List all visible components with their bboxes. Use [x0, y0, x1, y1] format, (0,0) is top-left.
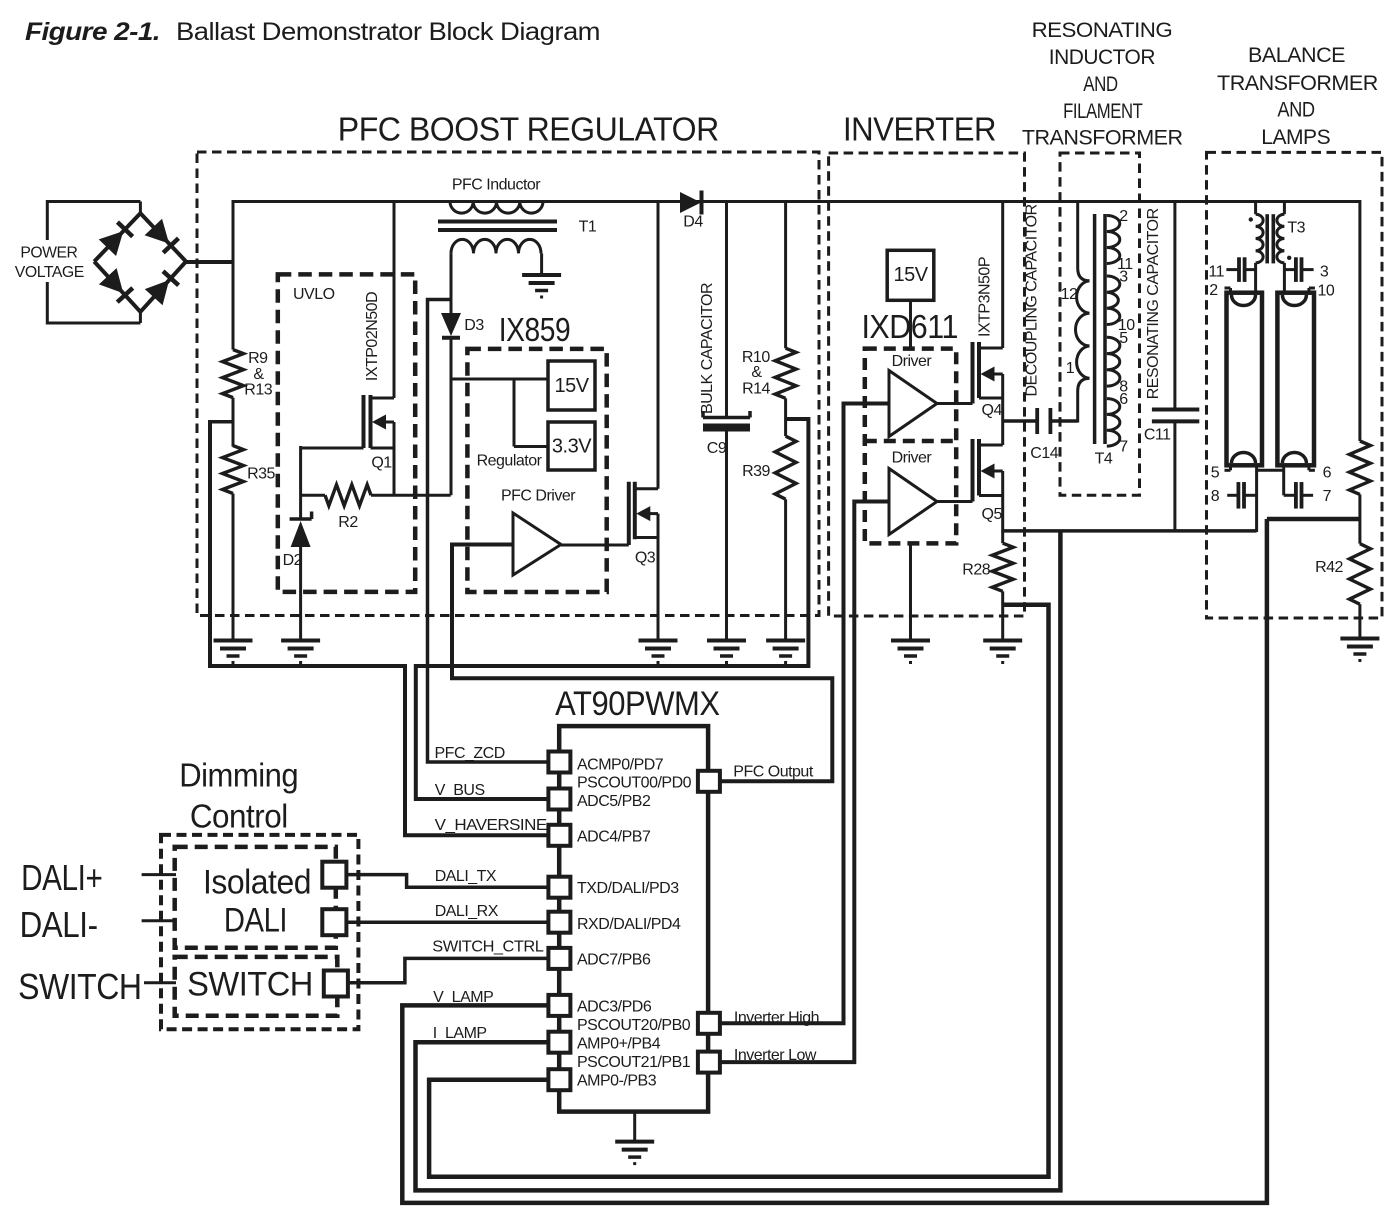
IXD611 driver dashed box: [865, 349, 956, 544]
capacitor C11: [1152, 408, 1199, 412]
T4 secondary winding 1: [1107, 216, 1120, 264]
lamp tube right: [1277, 293, 1314, 466]
wire C11 bottom: [1173, 421, 1176, 532]
wire T1 secondary left lead: [450, 253, 453, 313]
svg-text:R14: R14: [742, 381, 770, 398]
svg-text:6: 6: [1323, 464, 1332, 481]
T3 polarity dot left: [1249, 217, 1253, 221]
wire balance right drop: [1358, 200, 1361, 441]
svg-text:PFC Inductor: PFC Inductor: [452, 177, 541, 194]
svg-text:Isolated: Isolated: [203, 864, 311, 902]
inverter dashed box: [829, 153, 1025, 616]
power voltage label: [12, 240, 88, 282]
wire main top bus: [232, 200, 1360, 203]
svg-text:INVERTER: INVERTER: [843, 110, 996, 147]
svg-text:DALI-: DALI-: [20, 904, 98, 945]
svg-text:Figure 2-1.: Figure 2-1.: [25, 18, 160, 46]
driver box divider: [865, 439, 956, 444]
svg-text:VOLTAGE: VOLTAGE: [15, 264, 84, 281]
op-amp PFC driver triangle: [513, 513, 561, 575]
svg-text:FILAMENT: FILAMENT: [1063, 100, 1143, 123]
chip ground stub: [633, 1112, 636, 1141]
svg-text:Q5: Q5: [982, 506, 1003, 523]
inductor T3 right winding: [1277, 214, 1285, 263]
ground chip: [615, 1140, 654, 1144]
svg-text:2: 2: [1119, 208, 1128, 225]
AT90PWMX chip box: [559, 726, 708, 1112]
svg-text:15V: 15V: [554, 375, 589, 397]
wire R13 to junction: [232, 398, 235, 447]
ground Q3: [639, 639, 678, 643]
svg-text:IXTP3N50P: IXTP3N50P: [977, 257, 994, 337]
wire V_HAVERSINE route: [210, 420, 548, 835]
chip left pin boxes: [548, 752, 570, 773]
svg-text:R9: R9: [248, 350, 268, 367]
capacitor lamp 3: [1284, 268, 1296, 271]
capacitor C14: [1035, 408, 1039, 434]
svg-text:I_LAMP: I_LAMP: [433, 1025, 487, 1042]
wire T3 left lead bottom: [1254, 263, 1257, 293]
wire T4 primary top lead: [1078, 200, 1090, 281]
ground T1: [522, 273, 561, 277]
svg-text:12: 12: [1061, 286, 1078, 303]
wire lamp sense node: [1267, 517, 1360, 522]
svg-text:DALI+: DALI+: [21, 857, 102, 898]
svg-text:RXD/DALI/PD4: RXD/DALI/PD4: [577, 916, 681, 933]
wire R28 to ground: [1001, 591, 1004, 640]
ground driver box: [891, 639, 930, 643]
lamp right bottom filament: [1282, 453, 1306, 464]
svg-text:Dimming: Dimming: [179, 757, 298, 794]
svg-text:1: 1: [1066, 360, 1075, 377]
wire V_BUS route: [416, 419, 809, 799]
svg-text:R2: R2: [338, 514, 358, 531]
T4 secondary winding 4: [1107, 399, 1120, 447]
svg-text:TXD/DALI/PD3: TXD/DALI/PD3: [577, 880, 679, 897]
svg-text:ADC4/PB7: ADC4/PB7: [577, 829, 651, 846]
bridge diode top-right: [145, 219, 170, 244]
svg-text:C14: C14: [1030, 445, 1058, 462]
svg-text:AND: AND: [1083, 73, 1118, 96]
wire DALI_RX: [346, 920, 548, 924]
svg-text:PFC BOOST REGULATOR: PFC BOOST REGULATOR: [338, 110, 719, 147]
lamp pin 10 tick: [1309, 287, 1315, 290]
wire DALI_TX: [346, 875, 548, 888]
3.3V box: [548, 422, 595, 470]
svg-text:C9: C9: [707, 440, 727, 457]
svg-text:R28: R28: [962, 562, 990, 579]
chip right pin boxes: [698, 771, 720, 792]
svg-text:10: 10: [1318, 282, 1335, 299]
wire R10 to R39: [784, 398, 787, 436]
wire left bus: [232, 200, 235, 350]
lamp tube left: [1227, 293, 1263, 466]
wire R10 top: [784, 200, 787, 348]
svg-text:ADC5/PB2: ADC5/PB2: [577, 793, 651, 810]
diode D4: [680, 192, 701, 213]
wire I_LAMP route: [416, 531, 1061, 1191]
wire DALI- stub: [142, 919, 176, 922]
svg-text:11: 11: [1208, 263, 1224, 280]
svg-text:3.3V: 3.3V: [552, 436, 592, 458]
svg-text:Regulator: Regulator: [477, 453, 543, 470]
svg-text:R42: R42: [1315, 559, 1343, 576]
op-amp driver 2 triangle: [889, 469, 937, 535]
resistor R28: [992, 543, 1013, 591]
lamp pin 2 tick: [1225, 287, 1231, 290]
svg-text:&: &: [253, 366, 264, 383]
wire Q4 drain: [1001, 200, 1004, 348]
inductor T4 primary winding: [1076, 281, 1090, 379]
svg-text:6: 6: [1119, 391, 1128, 408]
capacitor C9: [703, 416, 750, 420]
wire R2 left lead: [301, 494, 325, 497]
svg-text:T1: T1: [579, 219, 597, 236]
wire C14 to T4 primary: [1050, 419, 1077, 423]
wire T4 primary bottom lead: [1078, 378, 1090, 422]
bridge diode top-left: [99, 231, 124, 256]
wire Q4 source to Q5 drain: [1001, 374, 1004, 445]
svg-text:BALANCE: BALANCE: [1248, 44, 1345, 67]
wire C11 top: [1173, 200, 1176, 410]
resistor R2: [325, 485, 371, 506]
ground C9: [707, 639, 746, 643]
svg-text:RESONATING: RESONATING: [1032, 19, 1173, 42]
svg-text:15V: 15V: [893, 264, 928, 286]
wire Q3 source to ground: [657, 514, 660, 641]
wire D3 cathode down: [450, 339, 453, 495]
IX859 dashed box: [467, 349, 606, 592]
transistor Q1: [362, 395, 366, 448]
svg-text:T4: T4: [1095, 450, 1113, 467]
wire C9 bottom: [725, 432, 728, 641]
svg-text:PFC_ZCD: PFC_ZCD: [435, 745, 505, 762]
svg-text:Q1: Q1: [371, 455, 392, 472]
svg-text:T3: T3: [1287, 220, 1305, 237]
wire Inverter Low route: [720, 502, 889, 1063]
svg-text:INDUCTOR: INDUCTOR: [1049, 46, 1156, 69]
svg-text:PSCOUT20/PB0: PSCOUT20/PB0: [577, 1017, 691, 1034]
wire T3 right lead bottom: [1283, 263, 1286, 293]
svg-text:ACMP0/PD7: ACMP0/PD7: [577, 757, 664, 774]
lamp pin 6 tick: [1307, 465, 1310, 470]
T1 core bars: [438, 220, 557, 224]
svg-text:PFC Output: PFC Output: [733, 764, 814, 781]
wire T1 secondary right lead: [540, 253, 543, 275]
svg-text:TRANSFORMER: TRANSFORMER: [1217, 72, 1378, 95]
T3 core bars: [1265, 214, 1269, 263]
wire DALI+ stub: [142, 873, 176, 876]
wire half-bridge low bus: [1003, 529, 1257, 533]
svg-text:R35: R35: [247, 466, 275, 483]
T3 polarity dot right: [1287, 256, 1291, 260]
T4 secondary winding 2: [1107, 276, 1120, 325]
wire PFC driver output: [561, 544, 629, 547]
wire R35 junction stub: [210, 420, 234, 424]
balance transformer dashed box: [1207, 152, 1383, 618]
resistor R9 R13: [223, 350, 244, 398]
resistor R39: [775, 436, 796, 499]
wire R42 to ground: [1358, 604, 1361, 638]
wire R35 to ground: [232, 494, 235, 641]
DALI pin box 2: [322, 909, 346, 935]
DALI pin box 1: [322, 862, 346, 888]
diode D2 zener: [290, 517, 312, 521]
15V box: [548, 361, 595, 410]
wire between resistors: [1358, 494, 1361, 543]
svg-text:AND: AND: [1277, 99, 1315, 122]
wire 15V to driver box: [909, 300, 912, 348]
inductor T1 secondary winding: [451, 239, 541, 253]
wire Q1 drain: [393, 200, 396, 398]
svg-text:Q4: Q4: [982, 402, 1003, 419]
svg-text:Driver: Driver: [892, 353, 933, 370]
capacitor lamp 8: [1227, 494, 1238, 497]
svg-text:TRANSFORMER: TRANSFORMER: [1022, 127, 1183, 150]
svg-text:PSCOUT21/PB1: PSCOUT21/PB1: [577, 1054, 691, 1071]
wire R28 top: [1001, 531, 1004, 543]
svg-text:7: 7: [1323, 488, 1332, 505]
wire bridge output: [186, 260, 234, 264]
wire T3 left lead top: [1254, 200, 1257, 214]
ground left divider: [214, 639, 253, 643]
op-amp driver 1 triangle: [889, 371, 937, 437]
wire SWITCH_CTRL: [348, 958, 549, 982]
svg-text:PFC Driver: PFC Driver: [501, 488, 576, 505]
wire D2 to ground: [299, 547, 302, 641]
wire C9 top: [725, 200, 728, 416]
svg-text:IXTP02N50D: IXTP02N50D: [364, 292, 381, 381]
wire 15V feed: [451, 378, 548, 381]
svg-text:AMP0+/PB4: AMP0+/PB4: [577, 1035, 661, 1052]
transistor Q3: [627, 482, 631, 545]
wire driver box ground stub: [909, 543, 912, 640]
wire V_LAMP route: [402, 519, 1267, 1203]
svg-text:ADC3/PD6: ADC3/PD6: [577, 998, 652, 1015]
svg-text:3: 3: [1119, 268, 1128, 285]
inductor T1 primary winding: [450, 202, 543, 214]
wire Q3 drain: [657, 200, 660, 489]
svg-text:&: &: [751, 364, 762, 381]
power voltage box: [47, 202, 140, 324]
UVLO dashed box: [278, 274, 415, 592]
svg-text:SWITCH_CTRL: SWITCH_CTRL: [432, 939, 544, 956]
wire 3.3V stub: [513, 379, 516, 447]
svg-text:C11: C11: [1144, 427, 1171, 444]
bridge diode bottom-left: [99, 268, 123, 293]
bridge diode bottom-right: [145, 280, 169, 305]
wire AMP0- route: [429, 605, 1048, 1177]
svg-text:DECOUPLING CAPACITOR: DECOUPLING CAPACITOR: [1024, 204, 1041, 396]
svg-text:IX859: IX859: [499, 311, 571, 348]
svg-text:7: 7: [1119, 439, 1128, 456]
svg-text:5: 5: [1119, 330, 1128, 347]
wire half-bridge node to C14: [1003, 419, 1037, 423]
resistor balance upper: [1349, 441, 1370, 494]
SWITCH dashed box: [175, 957, 338, 1016]
svg-text:PSCOUT00/PD0: PSCOUT00/PD0: [577, 775, 692, 792]
svg-text:3: 3: [1320, 264, 1329, 281]
ground R28: [983, 639, 1022, 643]
svg-text:D3: D3: [464, 317, 484, 334]
svg-text:AMP0-/PB3: AMP0-/PB3: [577, 1072, 657, 1089]
svg-text:SWITCH: SWITCH: [18, 966, 142, 1007]
PFC boost regulator dashed box: [197, 152, 819, 616]
wire R2 right lead: [371, 494, 451, 497]
lamp pin 5 tick: [1229, 465, 1232, 470]
svg-text:IXD611: IXD611: [861, 308, 958, 345]
svg-text:5: 5: [1211, 464, 1220, 481]
wire D2 top: [299, 446, 302, 519]
svg-text:POWER: POWER: [20, 245, 77, 262]
wire R39 to ground: [784, 499, 787, 640]
T4 core bars: [1093, 214, 1097, 444]
resistor R42: [1349, 544, 1370, 605]
svg-text:Q3: Q3: [635, 550, 656, 567]
svg-text:DALI: DALI: [224, 901, 287, 939]
svg-text:V_BUS: V_BUS: [435, 782, 485, 799]
T4 secondary winding 3: [1107, 337, 1120, 386]
svg-text:V_HAVERSINE: V_HAVERSINE: [435, 817, 547, 834]
filament transformer dashed box: [1060, 153, 1140, 495]
svg-text:LAMPS: LAMPS: [1261, 126, 1330, 149]
svg-text:DALI_TX: DALI_TX: [435, 868, 497, 885]
wire PFC_ZCD route: [428, 300, 549, 763]
wire Inverter High route: [720, 404, 889, 1024]
svg-text:D4: D4: [683, 214, 703, 231]
isolated DALI dashed box: [175, 847, 336, 948]
lamp right top filament: [1282, 295, 1306, 306]
wire lamp inner pins: [1255, 465, 1258, 532]
svg-text:RESONATING CAPACITOR: RESONATING CAPACITOR: [1145, 208, 1162, 399]
capacitor lamp 11: [1226, 268, 1239, 271]
svg-text:ADC7/PB6: ADC7/PB6: [577, 951, 651, 968]
ground D2: [281, 639, 320, 643]
svg-text:R39: R39: [742, 463, 770, 480]
svg-text:Driver: Driver: [892, 450, 933, 467]
transistor Q4: [971, 342, 975, 404]
transistor Q5: [971, 439, 975, 502]
svg-text:Control: Control: [190, 797, 288, 834]
resistor R10 R14: [775, 348, 796, 398]
diode D3: [441, 313, 461, 336]
15V box inverter: [887, 250, 934, 300]
svg-text:R13: R13: [244, 382, 272, 399]
wire T3 right lead top: [1283, 200, 1286, 214]
ground R39: [766, 639, 805, 643]
svg-text:BULK CAPACITOR: BULK CAPACITOR: [699, 283, 716, 414]
resistor R35: [223, 446, 244, 494]
inductor T3 left winding: [1256, 214, 1264, 263]
svg-text:SWITCH: SWITCH: [187, 966, 313, 1004]
bridge rectifier diamond: [94, 213, 140, 261]
dimming control dashed box: [161, 835, 358, 1029]
wire Q1 source: [393, 422, 396, 495]
SWITCH pin box: [324, 971, 348, 997]
svg-text:2: 2: [1209, 282, 1218, 299]
svg-text:AT90PWMX: AT90PWMX: [555, 685, 720, 723]
svg-text:UVLO: UVLO: [293, 286, 335, 303]
svg-text:Ballast Demonstrator Block Dia: Ballast Demonstrator Block Diagram: [176, 18, 600, 46]
capacitor lamp 7: [1284, 494, 1296, 497]
lamp left bottom filament: [1232, 453, 1256, 464]
wire Q5 source: [1001, 471, 1004, 532]
wire SWITCH stub: [144, 981, 176, 984]
svg-text:8: 8: [1211, 488, 1220, 505]
lamp left top filament: [1232, 295, 1256, 306]
svg-text:DALI_RX: DALI_RX: [435, 903, 499, 920]
wire PFC Output route: [452, 545, 832, 782]
ground R42: [1340, 637, 1379, 641]
